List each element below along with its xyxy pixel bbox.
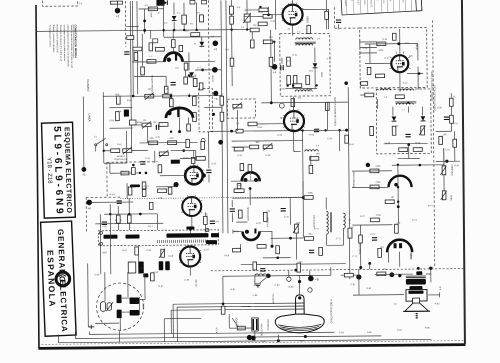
dashed box L9 adj — [227, 99, 255, 118]
wire drop 175b — [173, 22, 175, 30]
resistor R134 — [326, 102, 330, 110]
wire sync row 198 — [232, 197, 303, 200]
notes: condiciones de medida text block — [48, 24, 78, 68]
resistor R23b — [158, 165, 162, 173]
svg-text:470K: 470K — [193, 95, 199, 97]
junction sync b — [289, 237, 292, 240]
delay line main — [166, 233, 208, 238]
wire v1b right — [303, 8, 329, 10]
resistor R15c — [169, 99, 173, 107]
junction 133 164 — [132, 164, 135, 167]
speaker ground dots — [416, 313, 418, 318]
junction +3 — [212, 40, 218, 46]
wire chassis vertical 133 — [131, 1, 134, 96]
junction v1 left — [267, 14, 270, 17]
capacitor C104 — [140, 162, 145, 164]
capacitor C111 — [336, 20, 341, 22]
wire r122a — [325, 0, 327, 11]
wire y61 base — [132, 61, 165, 63]
wire crt left pins ext — [241, 305, 251, 307]
tuner wire bot — [95, 322, 119, 324]
tube V6A cathode blob — [243, 178, 247, 182]
tube V1B pentode IF — [282, 5, 302, 25]
wire crt feed — [254, 276, 256, 286]
junction j18 — [170, 95, 172, 97]
wire r102 up — [231, 29, 233, 58]
capacitor delay top — [210, 221, 215, 223]
wire drop 148 — [147, 127, 149, 143]
svg-text:R-46: R-46 — [415, 143, 421, 145]
tuner coil bar 2 — [117, 310, 122, 319]
svg-text:R-60: R-60 — [127, 100, 133, 102]
delay line core 4 — [206, 240, 217, 244]
wire video top — [292, 97, 294, 111]
junction +6 — [86, 200, 92, 206]
svg-text:AMORTIG.: AMORTIG. — [272, 293, 275, 304]
resistor R14 — [163, 94, 172, 98]
resistor R151 — [240, 164, 244, 171]
svg-text:R-66: R-66 — [234, 231, 240, 233]
svg-text:C-50: C-50 — [437, 107, 443, 109]
resistor R112 — [276, 246, 280, 254]
wire 209 drop2 — [208, 131, 210, 158]
wire r116 — [222, 303, 224, 306]
svg-text:SEPARADOR: SEPARADOR — [246, 207, 249, 221]
wire crt drop 2 — [170, 310, 172, 333]
resistor top margin b — [117, 1, 122, 4]
wire y276 ext — [341, 274, 358, 276]
tick snd a — [359, 40, 361, 44]
svg-text:Bobinas y tensiones variables.: Bobinas y tensiones variables. — [52, 25, 55, 54]
pot brillo — [263, 143, 272, 150]
pot volumen — [440, 166, 446, 175]
pot lin — [159, 150, 168, 157]
coil ratio det tertiary — [396, 103, 413, 105]
resistor R130 — [233, 248, 241, 252]
wire v6a row — [231, 180, 260, 182]
svg-text:LR-1: LR-1 — [148, 226, 154, 228]
switch bar — [171, 160, 180, 164]
resistor R11 — [116, 96, 120, 104]
wire tuner out bottom — [118, 331, 120, 342]
svg-text:Resistencias en ohmios 1/2 W.: Resistencias en ohmios 1/2 W. — [56, 25, 59, 54]
wire 196 drop — [195, 150, 197, 160]
wire right row — [436, 130, 452, 132]
svg-text:R-81: R-81 — [231, 289, 237, 291]
junction j12 — [259, 6, 261, 8]
resistor R15 — [192, 96, 196, 105]
wire 118 b — [117, 223, 119, 230]
wire v5 leg a — [388, 252, 390, 262]
wire v5 leg b — [410, 252, 412, 258]
bus bottom 3 — [58, 339, 431, 342]
svg-text:C-60: C-60 — [109, 120, 115, 122]
svg-text:DEFLEXION: DEFLEXION — [261, 323, 263, 336]
svg-text:R-71: R-71 — [314, 228, 320, 230]
svg-text:C-64: C-64 — [214, 221, 220, 223]
svg-text:47K: 47K — [287, 61, 291, 63]
junction +1 — [81, 167, 86, 172]
resistor R52 — [250, 145, 259, 149]
resistor R129 — [204, 216, 208, 224]
wire det drop — [314, 47, 316, 62]
tuner wire link — [122, 297, 129, 299]
diode ratio det 2 — [421, 116, 426, 121]
svg-text:C-81: C-81 — [351, 284, 357, 286]
resistor R107 — [193, 78, 197, 86]
resistor R141 — [134, 52, 138, 60]
wire L9 down — [236, 110, 238, 131]
svg-text:R-84: R-84 — [299, 341, 305, 343]
svg-text:R-72: R-72 — [360, 216, 366, 218]
resistor R113 — [319, 247, 323, 255]
resistor R46 — [439, 136, 443, 144]
pot agc level — [159, 249, 165, 258]
tube V5 output half — [387, 240, 412, 253]
switch interruptor — [95, 138, 108, 146]
bus B+ top — [37, 30, 222, 32]
capacitor C22 — [159, 261, 164, 270]
tuner wire left — [87, 263, 90, 326]
wire r109a — [270, 30, 272, 57]
resistor R53 — [309, 165, 313, 173]
title box ESQUEMA ELECTRICO 5L9-6L9-6N9 — [42, 122, 76, 218]
svg-text:C-51: C-51 — [445, 149, 451, 151]
wire crt neck top — [299, 276, 301, 295]
junction j20 — [109, 213, 111, 215]
svg-text:CUADRO: CUADRO — [86, 79, 90, 92]
wire y103 long — [261, 101, 348, 104]
junction j19 — [188, 95, 190, 97]
tuner wire link2 — [122, 311, 129, 313]
resistor R114 — [359, 235, 363, 243]
wire row 36 — [164, 36, 221, 38]
tube V4A cathode — [394, 183, 398, 187]
svg-text:C-40: C-40 — [362, 48, 368, 50]
wire drop 221 — [221, 93, 223, 96]
filter bar — [138, 261, 144, 273]
wire sync low — [263, 257, 291, 259]
resistor R125 — [128, 215, 132, 223]
capacitor C113 — [102, 222, 107, 224]
wire snd mid — [397, 165, 400, 224]
resistor sound k — [367, 67, 371, 74]
resistor R31 — [263, 15, 272, 19]
wire crt drop 1 — [172, 304, 174, 337]
junction j23 — [103, 150, 105, 152]
wire osc join — [327, 244, 344, 246]
resistor R18 — [159, 123, 168, 127]
svg-text:C-70: C-70 — [284, 217, 290, 219]
wire vol link — [443, 148, 445, 165]
junction j17 — [407, 101, 409, 103]
svg-text:100K: 100K — [308, 192, 314, 194]
resistor R120 — [196, 157, 205, 161]
svg-text:R-67: R-67 — [122, 250, 128, 252]
capacitor C101 — [314, 129, 319, 131]
tuner arrow — [106, 302, 113, 311]
junction vol — [419, 164, 422, 167]
ratio det core — [395, 102, 416, 103]
wire sound right — [417, 44, 419, 61]
tube V6B grid blob — [245, 230, 249, 234]
wire 129 b — [128, 223, 130, 230]
svg-text:12K: 12K — [396, 223, 400, 225]
wire drop 277 — [274, 0, 276, 30]
tube V9A anode bar — [175, 54, 177, 61]
wire rc a — [454, 131, 456, 139]
bus bottom drop c — [88, 331, 90, 334]
wire y69 — [195, 69, 221, 71]
wire row 142 — [140, 141, 198, 144]
coil T2 core lines — [295, 42, 316, 43]
wire spk top — [375, 273, 413, 275]
svg-text:+B: +B — [315, 277, 319, 281]
svg-text:Y18 - Z18: Y18 - Z18 — [46, 157, 53, 184]
wire r109b — [270, 67, 272, 103]
junction right col — [445, 160, 448, 163]
wire video tube down — [293, 132, 295, 152]
svg-text:6AU8: 6AU8 — [415, 43, 418, 50]
svg-text:C-85: C-85 — [184, 280, 190, 282]
tuner crystal b — [107, 303, 112, 311]
wire row318 — [164, 317, 201, 319]
wire sync drop 290 — [289, 198, 291, 225]
dashed box antenna top — [42, 0, 77, 6]
junction cap tick — [397, 205, 400, 208]
resistor R83 — [370, 218, 379, 222]
junction b4b — [345, 129, 348, 132]
resistor R40 — [377, 42, 386, 46]
wire 420 drop — [417, 67, 419, 90]
resistor R123 — [365, 93, 374, 97]
junction spk dash2 — [417, 267, 420, 270]
resistor R51 — [310, 157, 319, 161]
wire crt pin bus 2 — [171, 309, 296, 310]
svg-text:C-41: C-41 — [403, 83, 409, 85]
wire 190 dn — [189, 230, 191, 234]
junction 203 70 — [201, 68, 204, 71]
capacitor C21 — [117, 201, 122, 203]
GE logo monogram — [56, 272, 70, 286]
svg-text:1M: 1M — [153, 122, 156, 124]
resistor R119 — [187, 124, 191, 131]
wire drop 174 — [172, 30, 174, 39]
capacitor C108 — [372, 238, 377, 240]
junction y341 — [277, 339, 280, 342]
terminal circle a — [287, 277, 291, 281]
svg-text:+4: +4 — [273, 70, 277, 74]
wire crt pin bus 3 — [177, 306, 296, 307]
tick snd c — [359, 51, 361, 55]
dashed box sound IF amp — [360, 27, 428, 88]
svg-text:R-30: R-30 — [258, 12, 264, 14]
resistor rd left — [370, 126, 374, 135]
svg-text:R-40: R-40 — [382, 39, 388, 41]
wire tuner out — [144, 274, 146, 299]
wire circ a — [288, 271, 290, 277]
small coil bottom — [255, 274, 267, 276]
wire rd 1 — [392, 107, 394, 116]
junction yoke — [251, 336, 256, 341]
junction spk left — [356, 274, 361, 279]
wire det out — [408, 145, 410, 159]
coil ratio det primary — [380, 89, 390, 91]
svg-text:GENERAL: GENERAL — [56, 229, 67, 275]
wire spk drop — [358, 269, 360, 295]
junction y103 — [270, 101, 273, 104]
wire snd row 188 — [352, 186, 388, 188]
resistor R81 — [370, 185, 379, 189]
wire 378 link — [376, 99, 378, 109]
junction v5 out — [398, 274, 401, 277]
wire det drop2 — [314, 68, 316, 88]
svg-text:OSCILADOR: OSCILADOR — [312, 215, 315, 228]
svg-text:C-82: C-82 — [261, 341, 267, 343]
wire row 170 — [160, 175, 185, 177]
svg-text:ALTAVOZ: ALTAVOZ — [235, 317, 238, 327]
divider dashed left — [124, 1, 126, 47]
svg-text:R-74: R-74 — [428, 205, 434, 207]
junction j4 — [195, 29, 197, 31]
wire drop 221c — [221, 121, 223, 131]
resistor R102 — [230, 58, 234, 66]
filter box — [128, 262, 136, 273]
svg-text:R-82: R-82 — [367, 288, 373, 290]
resistor R128 — [168, 187, 172, 194]
wire crt top drop — [222, 276, 224, 303]
wire r122b — [326, 19, 328, 29]
mains rectifier body — [156, 0, 164, 6]
divider dotted low — [211, 269, 464, 271]
tiny box top b — [201, 0, 206, 4]
wire vol feed — [443, 148, 445, 166]
junction det — [407, 143, 410, 146]
wire 369 drop — [369, 263, 371, 269]
junction 146 mid — [143, 20, 146, 23]
wire drop 175 — [173, 3, 175, 15]
wire video bus vertical — [302, 131, 305, 200]
svg-text:C-61: C-61 — [145, 158, 151, 160]
wire yoke drop — [254, 331, 256, 341]
junction +B crt — [308, 276, 314, 282]
coil L14 osc — [326, 211, 328, 234]
deflection yoke coil — [252, 318, 259, 331]
wire drop 185 — [183, 3, 185, 15]
resistor R82 — [385, 200, 394, 204]
resistor R34 — [287, 57, 291, 66]
wire 270 drop — [267, 7, 269, 15]
wire sync drop 303 — [302, 198, 304, 238]
resistor R12 — [116, 112, 120, 121]
wire circ b — [309, 270, 311, 275]
resistor R152 — [248, 164, 252, 171]
diode vert fb — [189, 72, 194, 77]
resistor R45 — [450, 115, 454, 123]
wire 167 up — [165, 76, 167, 85]
wire c103 — [281, 58, 283, 64]
tube V8A half envelope — [166, 108, 193, 118]
resistor R85 — [348, 228, 352, 238]
svg-text:PASO PREAMP.: PASO PREAMP. — [352, 172, 355, 189]
capacitor C103 — [281, 65, 283, 70]
svg-text:AMPLIFICADOR DE VIDEO: AMPLIFICADOR DE VIDEO — [333, 97, 336, 126]
tuner dashed h2 — [86, 196, 120, 198]
resistor R80 — [370, 169, 379, 173]
svg-text:C-66: C-66 — [146, 250, 152, 252]
junction spk dash — [429, 267, 432, 270]
sheet border left — [36, 5, 39, 348]
svg-text:R-83: R-83 — [435, 303, 441, 305]
junction j26 — [286, 84, 288, 86]
wire row 95 — [103, 95, 132, 97]
resistor R116 — [221, 306, 225, 314]
tuner wire mid — [119, 318, 121, 331]
wire drop 248 — [246, 0, 248, 14]
junction j7 — [292, 129, 294, 131]
wire y61 right — [182, 60, 215, 62]
pot tono — [441, 191, 447, 200]
resistor R90 — [377, 272, 386, 276]
resistor R118 — [132, 168, 136, 175]
resistor R103 — [248, 122, 257, 126]
tuner wire in b — [127, 272, 129, 297]
wire sync v — [302, 182, 304, 198]
tuner wire in a — [104, 272, 106, 301]
junction j14 — [397, 163, 399, 165]
tube V3A sound IF — [391, 55, 408, 72]
capacitor C105 — [230, 209, 235, 211]
wire drop 190 b — [188, 94, 190, 97]
svg-text:R-55: R-55 — [257, 127, 263, 129]
tiny box top a — [190, 0, 195, 4]
pot L9 — [233, 103, 242, 110]
svg-text:R-88: R-88 — [138, 268, 144, 270]
divider dashed sound box — [433, 20, 435, 266]
svg-text:R-61: R-61 — [117, 144, 123, 146]
svg-text:R-51: R-51 — [453, 123, 459, 125]
capacitor C102 — [171, 82, 176, 84]
wire rc b — [454, 147, 456, 161]
wire sound row2 — [365, 62, 391, 64]
tube V10A grid dot — [173, 182, 178, 187]
wire v1b top — [291, 0, 293, 5]
junction 215 107 — [212, 113, 215, 116]
svg-text:R-65: R-65 — [158, 198, 164, 200]
svg-text:+3: +3 — [214, 47, 218, 51]
resistor R72 — [142, 182, 146, 189]
junction j5 — [230, 28, 232, 30]
wire tube V1B down — [292, 25, 294, 36]
resistor R21 — [201, 141, 205, 149]
wire c110a — [208, 158, 210, 168]
capacitor C106 — [281, 208, 286, 210]
junction j10 — [338, 129, 340, 131]
speaker magnet — [408, 290, 423, 293]
wire drop 146 — [144, 9, 146, 34]
wire rd 2 — [421, 106, 423, 115]
junction +B ch — [213, 91, 218, 96]
resistor R126 — [117, 215, 121, 223]
resistor top margin a — [110, 1, 117, 4]
resistor R148 — [184, 77, 188, 84]
wire snd out drop — [399, 252, 401, 267]
svg-text:47K: 47K — [409, 56, 413, 58]
wire r100 up — [150, 30, 152, 39]
svg-text:C-73: C-73 — [412, 220, 418, 222]
resistor R23 — [191, 157, 195, 163]
ground crt left — [255, 284, 261, 287]
